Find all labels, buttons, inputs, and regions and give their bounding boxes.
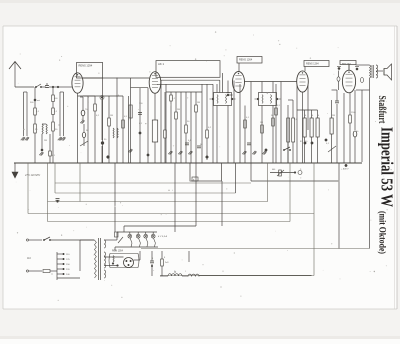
svg-text:4 V 0,3 A: 4 V 0,3 A [158, 235, 167, 238]
svg-text:2M: 2M [177, 109, 180, 111]
svg-text:2M: 2M [332, 115, 335, 117]
svg-text:1M: 1M [197, 102, 200, 104]
svg-text:ant: ant [37, 99, 40, 102]
svg-text:Dr: Dr [174, 271, 177, 274]
svg-text:Staßfurt: Staßfurt [376, 96, 387, 124]
svg-text:1M: 1M [260, 122, 263, 124]
svg-text:AK 1: AK 1 [158, 62, 165, 66]
svg-text:27 V 120 MHz: 27 V 120 MHz [24, 174, 41, 177]
svg-text:RENS 1294: RENS 1294 [79, 64, 93, 68]
svg-text:(mit Oktode): (mit Oktode) [378, 211, 388, 254]
svg-text:110: 110 [27, 257, 31, 260]
svg-text:2M: 2M [44, 140, 47, 142]
svg-text:RGN 1054: RGN 1054 [112, 251, 124, 253]
svg-text:Imperial 53 W: Imperial 53 W [378, 127, 397, 207]
svg-text:1M: 1M [110, 115, 113, 117]
svg-text:RENS 1264: RENS 1264 [306, 63, 319, 66]
svg-text:RENS 1264: RENS 1264 [239, 59, 253, 62]
svg-text:400: 400 [272, 169, 275, 171]
svg-text:+ 400 V: + 400 V [341, 168, 349, 171]
svg-text:RES 964: RES 964 [342, 64, 352, 66]
